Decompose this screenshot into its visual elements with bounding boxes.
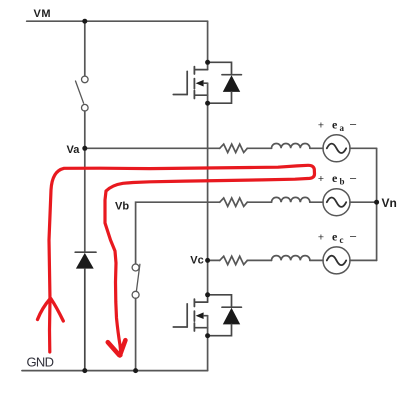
node: Q1 drain junction xyxy=(205,60,210,65)
red arrowhead down (end of path) xyxy=(108,340,126,355)
red arrowhead up (into path at left) xyxy=(38,299,64,322)
node: Q2 drain junction xyxy=(205,292,210,297)
svg-text:e: e xyxy=(332,229,338,243)
wire: ea to Vn bus xyxy=(350,147,377,149)
node Vc xyxy=(205,258,210,263)
resistor Rc xyxy=(220,256,248,264)
wire: eb to Vn bus xyxy=(350,201,377,203)
svg-text:VM: VM xyxy=(34,8,52,20)
wire: Ra to La xyxy=(247,147,271,149)
diode D1 freewheeling (anode at GND side) xyxy=(75,252,96,370)
wire: S2 to GND xyxy=(135,298,137,370)
wire: phase C line xyxy=(208,259,220,261)
resistor Ra xyxy=(220,144,248,152)
wire: main bus top (VM to Q1 drain) xyxy=(207,21,209,69)
svg-text:Vb: Vb xyxy=(115,201,129,213)
svg-text:–: – xyxy=(350,119,357,131)
AC source ea xyxy=(323,135,350,162)
node: Q1 source junction xyxy=(205,101,210,106)
svg-text:e: e xyxy=(332,171,338,185)
svg-text:Va: Va xyxy=(67,144,81,156)
wire: Rc to Lc xyxy=(247,259,271,261)
GND rail wire xyxy=(22,370,208,372)
inductor Lb xyxy=(272,197,310,202)
node Vn xyxy=(374,200,379,205)
wire: La to source ea xyxy=(310,147,323,149)
svg-text:Vn: Vn xyxy=(382,196,397,210)
red current path (hand drawn) xyxy=(38,165,315,355)
node: GND / S2 leg xyxy=(133,368,138,373)
node: VM / left leg xyxy=(82,19,87,24)
switch S1 (phase A high-side) xyxy=(76,76,89,111)
body diode of Q2 xyxy=(208,295,242,336)
svg-text:+: + xyxy=(318,231,324,243)
node Va xyxy=(82,146,87,151)
wire: Lb to source eb xyxy=(310,201,323,203)
wire: Vb corner leg xyxy=(136,202,220,264)
VM rail wire xyxy=(27,20,208,22)
node: GND / left leg xyxy=(82,368,87,373)
resistor Rb xyxy=(220,198,248,206)
svg-text:–: – xyxy=(350,172,357,184)
wire: left leg to Va xyxy=(84,111,86,148)
svg-text:c: c xyxy=(340,235,344,245)
wire: red loop main stroke xyxy=(49,165,315,355)
AC source eb xyxy=(323,189,350,216)
svg-text:a: a xyxy=(340,123,345,133)
node: Q2 source junction xyxy=(205,333,210,338)
svg-text:+: + xyxy=(318,119,324,131)
svg-text:b: b xyxy=(340,177,345,187)
wire: Vn bus vertical xyxy=(376,148,378,260)
switch S2 (phase B low-side) xyxy=(132,264,140,298)
svg-text:+: + xyxy=(318,173,324,185)
wire: Lc to source ec xyxy=(310,259,323,261)
transistor Q2 low-side NMOS xyxy=(173,295,207,331)
wire: Rb to Lb xyxy=(247,201,271,203)
wire: bus Q2 source to GND xyxy=(207,316,209,371)
svg-text:e: e xyxy=(332,117,338,131)
body diode of Q1 xyxy=(208,62,242,103)
transistor Q1 high-side NMOS xyxy=(173,67,207,99)
wire: phase A line xyxy=(85,147,220,149)
svg-text:Vc: Vc xyxy=(190,255,203,267)
wire: mid bus (Q1 source down to Q2 drain) xyxy=(207,83,209,295)
wire: left leg Va to diode xyxy=(84,148,86,252)
AC source ec xyxy=(323,247,350,274)
svg-text:–: – xyxy=(350,231,357,243)
inductor La xyxy=(272,144,310,149)
wire: left leg upper segment xyxy=(84,21,86,76)
wire: ec to Vn bus xyxy=(350,259,377,261)
inductor Lc xyxy=(272,256,310,261)
svg-text:GND: GND xyxy=(27,355,54,370)
